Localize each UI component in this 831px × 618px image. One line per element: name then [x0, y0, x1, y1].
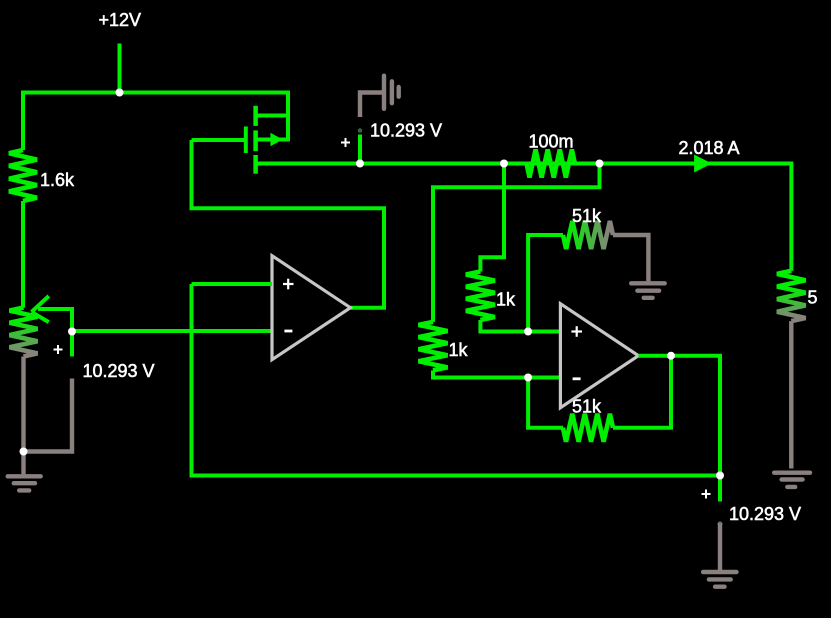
resistor R4 1k: [466, 272, 495, 321]
current arrow on output wire: [694, 155, 712, 173]
1k value label right: [496, 290, 516, 310]
wire R4 to U2 + node: [480, 320, 528, 332]
resistor R1 1.6k: [9, 150, 37, 201]
wire wiper to node: [38, 309, 72, 332]
10.293 V readout top: [370, 121, 442, 141]
2.018 A readout: [679, 138, 740, 158]
wire gate lead: [192, 138, 245, 142]
node junction right of 100m: [596, 160, 604, 168]
node junction at bottom feedback: [716, 472, 724, 480]
wire left 100m node to 1k (R4): [480, 164, 504, 272]
node junction at pot ground: [20, 448, 28, 456]
resistor R7 51k feedback: [563, 414, 613, 442]
wire wiper node to op-amp U1 inverting input: [72, 329, 272, 333]
100m value label: [529, 132, 574, 152]
node junction U2 - input: [524, 374, 532, 382]
wire R7 to U2 output: [613, 356, 671, 428]
resistor R3 100m current sense: [527, 150, 575, 178]
wire R5 to U2 - node: [433, 370, 528, 377]
10.293 V readout bottom: [729, 504, 801, 524]
potentiometer wiper arrow: [32, 296, 49, 322]
svg-text:1k: 1k: [449, 340, 469, 360]
wire U2 output to bottom node: [638, 356, 720, 476]
resistor R8 5 ohm load: [777, 271, 806, 321]
plus sign bottom voltmeter: [702, 490, 711, 499]
op-amp U2: [560, 304, 638, 408]
+12V label: [99, 10, 142, 30]
svg-text:2.018 A: 2.018 A: [679, 138, 740, 158]
svg-text:10.293 V: 10.293 V: [83, 361, 155, 381]
ground symbol bottom-left: [8, 452, 41, 491]
op-amp U1: [272, 256, 350, 360]
svg-text:10.293 V: 10.293 V: [729, 504, 801, 524]
wire U1 non-inverting input: [192, 282, 273, 286]
svg-text:+12V: +12V: [99, 10, 142, 30]
wire right 100m node to 1k (R5): [433, 164, 600, 322]
ground symbol right: [774, 473, 810, 487]
node junction at wiper: [68, 328, 76, 336]
resistor R5 1k: [419, 322, 448, 371]
voltmeter probe stub at wiper: [70, 332, 74, 357]
svg-text:10.293 V: 10.293 V: [370, 121, 442, 141]
+12V rail stub wire: [118, 44, 122, 94]
svg-text:100m: 100m: [529, 132, 574, 152]
plus sign of wiper voltmeter: [54, 345, 63, 354]
ground symbol top-right: [631, 283, 665, 298]
node junction at +12V rail: [116, 89, 124, 97]
wire 1.6k to potentiometer: [21, 201, 25, 308]
wire U2 + node up to 51k (R6): [528, 235, 563, 332]
wire feedback from output node to U1 + input: [192, 284, 721, 476]
wire U2 - node down to 51k (R7): [528, 378, 563, 428]
voltmeter gray return wire: [24, 379, 73, 452]
voltmeter at MOSFET drain: probe symbol: [358, 76, 399, 164]
node junction at U2 output: [667, 352, 675, 360]
plus sign top voltmeter: [341, 138, 350, 147]
wire U1 output to gate loop: [192, 140, 385, 308]
wire main output rail: [256, 164, 792, 271]
node junction U2 + input: [524, 328, 532, 336]
wire top rail from 1.6k top to MOSFET source column: [23, 93, 288, 151]
node junction left of 100m: [500, 160, 508, 168]
resistor R6 51k: [563, 221, 613, 249]
node junction at drain voltmeter: [356, 160, 364, 168]
svg-text:5: 5: [808, 288, 818, 308]
wire R6 to ground: [613, 235, 648, 281]
wire U2 input stubs: [528, 332, 560, 378]
wire 5 ohm to ground: [789, 321, 793, 468]
51k value label top: [572, 206, 602, 226]
51k value label bottom: [572, 397, 602, 417]
potentiometer bottom gray lead: [21, 357, 25, 452]
10.293 V readout at wiper: [83, 361, 155, 381]
5 value label: [808, 288, 818, 308]
voltmeter at output bottom-right: [703, 476, 736, 587]
potentiometer R2 body: [10, 308, 38, 357]
svg-text:51k: 51k: [572, 206, 602, 226]
1k value label left: [449, 340, 469, 360]
svg-text:1.6k: 1.6k: [40, 170, 75, 190]
svg-text:51k: 51k: [572, 397, 602, 417]
svg-text:1k: 1k: [496, 290, 516, 310]
transistor Q1 p-MOSFET: [246, 106, 288, 174]
1.6k value label: [40, 170, 75, 190]
